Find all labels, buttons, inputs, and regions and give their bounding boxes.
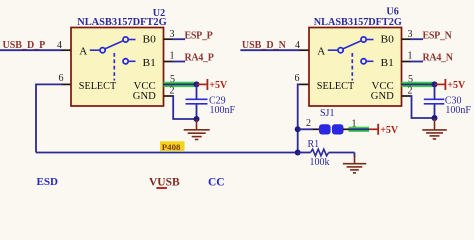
svg-text:ESP_P: ESP_P	[185, 30, 213, 41]
svg-text:ESD: ESD	[37, 176, 58, 188]
wire P408 horizontal net	[36, 152, 298, 154]
solder jumper SJ1 pad A	[319, 124, 331, 134]
pin 5 stub (U2)	[164, 83, 174, 85]
svg-text:SJ1: SJ1	[320, 108, 334, 119]
pin 6 stub (U2)	[62, 83, 72, 85]
svg-text:A: A	[79, 45, 87, 57]
svg-text:1: 1	[408, 51, 413, 62]
switch throw B0 lead (U2)	[129, 39, 136, 41]
svg-text:R1: R1	[308, 139, 320, 150]
switch throw B0 lead (U6)	[367, 39, 374, 41]
capacitor C29	[186, 99, 208, 104]
svg-text:NLASB3157DFT2G: NLASB3157DFT2G	[77, 17, 167, 28]
pin 5 stub (U6)	[402, 83, 412, 85]
wire ESP_P	[172, 38, 185, 40]
junction dot SJ1 tap	[295, 126, 301, 132]
wire SJ1 pin 2	[298, 128, 314, 130]
wire R1 to ground	[354, 153, 356, 158]
svg-text:A: A	[317, 45, 325, 57]
power port +5V bar (U6)	[444, 79, 446, 90]
svg-text:GND: GND	[133, 90, 156, 102]
svg-text:U6: U6	[386, 7, 398, 18]
wire from SELECT pin 6 down to SJ1/R1	[298, 84, 300, 152]
svg-text:2: 2	[408, 85, 413, 96]
pin 2 stub (U6)	[402, 95, 412, 97]
junction dot R1 tap	[295, 150, 301, 156]
wire USB_D_N	[240, 49, 300, 51]
svg-text:100nF: 100nF	[210, 105, 236, 116]
capacitor C30	[424, 99, 445, 104]
junction dot +5V node (U6)	[432, 81, 438, 87]
wire ESP_N	[410, 38, 423, 40]
switch throw B1 circle (U2)	[123, 59, 128, 64]
svg-text:100nF: 100nF	[445, 105, 471, 116]
svg-text:B0: B0	[381, 34, 395, 46]
pin 6 stub (U6)	[300, 83, 310, 85]
wire RA4_N	[410, 61, 423, 63]
pin 4 stub (U2)	[62, 49, 72, 51]
component body U6	[309, 28, 402, 107]
svg-text:CC: CC	[208, 177, 225, 189]
wire USB_D_P	[0, 49, 62, 51]
power port +5V stem (SJ1)	[369, 128, 378, 130]
power bar under VUSB (clipped)	[156, 187, 167, 189]
svg-text:+5V: +5V	[209, 80, 228, 91]
power port +5V stem (U2)	[197, 83, 207, 85]
switch pole lead (U6)	[328, 49, 338, 51]
svg-text:B1: B1	[381, 57, 394, 69]
svg-text:NLASB3157DFT2G: NLASB3157DFT2G	[314, 17, 402, 28]
svg-text:2: 2	[170, 85, 175, 96]
pin 4 stub (U6)	[300, 49, 310, 51]
solder jumper SJ1 pad B	[332, 124, 344, 134]
svg-text:ESP_N: ESP_N	[423, 30, 453, 41]
ground symbol (C29)	[184, 119, 210, 140]
svg-text:6: 6	[59, 73, 64, 84]
wire C30 to ground junction	[434, 104, 436, 118]
wire SJ1 pin1 highlighted	[349, 128, 369, 130]
net highlight on SJ1 pin1 wire	[349, 127, 370, 132]
wire +5V junction down to C30	[434, 84, 436, 98]
switch pole lead (U2)	[90, 49, 100, 51]
power port +5V bar (SJ1)	[377, 124, 379, 135]
wire VCC to +5V junction (U2)	[164, 83, 197, 85]
svg-text:4: 4	[295, 40, 300, 51]
pin 1 stub (U2)	[164, 61, 174, 63]
pin 2 stub (U2)	[164, 95, 174, 97]
switch pole circle (U6)	[338, 48, 343, 53]
wire C29 to ground junction	[196, 104, 198, 119]
net highlight on VCC wire (U6)	[402, 82, 433, 87]
SJ1 pin 1 stub	[343, 128, 350, 130]
switch throw B1 circle (U6)	[361, 59, 366, 64]
svg-text:SELECT: SELECT	[79, 80, 117, 92]
wire GND pin to ground node (U6)	[410, 96, 435, 118]
svg-text:USB_D_N: USB_D_N	[242, 40, 287, 51]
switch throw B1 lead (U2)	[129, 60, 136, 62]
svg-text:USB_D_P: USB_D_P	[3, 40, 46, 51]
wire VCC to +5V junction (U6)	[402, 83, 435, 85]
ground symbol (C30)	[422, 118, 447, 139]
wire RA4_P	[172, 61, 185, 63]
SJ1 pin 2 stub	[313, 128, 320, 130]
svg-text:+5V: +5V	[447, 80, 466, 91]
svg-text:2: 2	[306, 118, 311, 129]
net label P408 highlighted	[160, 141, 185, 152]
power port +5V bar (U2)	[206, 79, 208, 90]
svg-text:P408: P408	[162, 142, 181, 152]
resistor R1	[298, 149, 355, 156]
switch throw B0 circle (U6)	[361, 37, 366, 42]
svg-text:RA4_N: RA4_N	[423, 52, 454, 63]
switch pole circle (U2)	[100, 48, 105, 53]
svg-text:B1: B1	[143, 57, 156, 69]
junction dot ground node (U2)	[194, 116, 200, 122]
junction dot +5V node (U2)	[194, 81, 200, 87]
pin 1 stub (U6)	[402, 61, 412, 63]
svg-text:RA4_P: RA4_P	[185, 52, 214, 63]
switch arm (U6)	[343, 41, 361, 49]
junction dot ground node (U6)	[432, 115, 438, 121]
sheet background	[0, 0, 474, 189]
wire GND pin to ground node (U2)	[172, 96, 197, 119]
switch arm (U2)	[105, 41, 123, 49]
svg-text:B0: B0	[143, 34, 157, 46]
pin 3 stub (U6)	[402, 38, 412, 40]
svg-text:GND: GND	[371, 90, 394, 102]
pin 3 stub (U2)	[164, 38, 174, 40]
net highlight on VCC wire (U2)	[164, 82, 195, 87]
svg-text:1: 1	[170, 51, 175, 62]
svg-text:VUSB: VUSB	[149, 177, 180, 189]
svg-text:+5V: +5V	[380, 125, 399, 136]
svg-text:100k: 100k	[310, 157, 330, 168]
wire from SELECT pin 6 to bottom net	[36, 84, 62, 152]
switch throw B0 circle (U2)	[123, 37, 128, 42]
select dashed line (U6)	[351, 53, 353, 81]
power port +5V stem (U6)	[435, 83, 445, 85]
component body U2	[71, 28, 164, 107]
ground symbol (R1)	[343, 156, 366, 173]
select dashed line (U2)	[113, 53, 115, 81]
wire +5V junction down to C29	[196, 84, 198, 98]
svg-text:6: 6	[295, 73, 300, 84]
svg-text:SELECT: SELECT	[317, 80, 355, 92]
switch throw B1 lead (U6)	[367, 60, 374, 62]
svg-text:4: 4	[57, 40, 62, 51]
